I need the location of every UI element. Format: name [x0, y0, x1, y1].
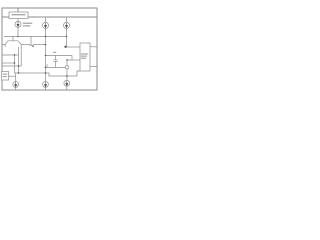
- junction node H: [66, 75, 67, 76]
- label text regulator box: [12, 14, 26, 15]
- bottom node wire N2: [15, 73, 78, 76]
- base lead Q2 to Q3: [21, 44, 30, 46]
- transistor Q4 hook: [46, 64, 48, 67]
- junction node L: [18, 65, 19, 66]
- arrow CS6: [66, 81, 68, 86]
- wire Q5 down: [66, 69, 68, 81]
- junction node F: [66, 59, 67, 60]
- input pair Q1/Q2 emitter hat: [5, 36, 21, 44]
- wire box to CS4: [9, 75, 16, 77]
- wire CS3 down: [66, 28, 68, 36]
- input wire: [2, 62, 15, 64]
- output wire OUT1: [90, 46, 97, 48]
- frame border: [2, 8, 97, 90]
- label C1: [53, 52, 56, 53]
- emitter arrow Q3: [31, 46, 34, 48]
- wire stub CS2: [45, 17, 47, 22]
- wire Q2 leg: [20, 45, 22, 67]
- wire corner step: [71, 55, 73, 60]
- wire CS4 to rail: [15, 87, 17, 90]
- wire to Q5: [46, 66, 66, 68]
- arrow CS3: [65, 23, 67, 28]
- arrow Q6 emitter: [64, 45, 67, 48]
- center column wire: [45, 36, 47, 81]
- wire to CS4: [15, 73, 17, 82]
- wire vertical: [18, 47, 20, 73]
- arrow CS2: [44, 23, 46, 28]
- VCC rail: [2, 16, 97, 18]
- junction node C: [45, 44, 46, 45]
- current source CS1: [15, 21, 21, 27]
- arrow CS4: [15, 82, 17, 87]
- driver column wire: [66, 36, 68, 47]
- node wire N3: [46, 54, 73, 56]
- capacitor C1: [54, 60, 58, 62]
- capacitor C1 lead: [55, 61, 57, 67]
- label reference current: [23, 23, 33, 24]
- wire stub CS3: [66, 17, 68, 22]
- Q5 collector lead: [66, 60, 68, 66]
- transistor Q3: [29, 36, 33, 45]
- wire CS1 down: [17, 27, 19, 36]
- junction node B: [45, 36, 46, 37]
- current source CS5: [43, 82, 49, 88]
- wire step up: [77, 71, 80, 76]
- junction node E: [45, 72, 46, 73]
- output wire OUT2: [90, 66, 97, 68]
- capacitor C1 lead: [55, 55, 57, 59]
- current source CS4: [13, 82, 19, 88]
- wire into output box: [68, 59, 81, 61]
- wire box to CS1: [17, 19, 19, 22]
- junction node K: [18, 72, 19, 73]
- current source CS6: [64, 80, 70, 86]
- wire vertical: [14, 55, 16, 73]
- junction node A: [17, 36, 18, 37]
- junction node J: [14, 62, 15, 63]
- junction node G: [45, 67, 46, 68]
- label output box: [81, 53, 88, 54]
- current source CS3: [63, 22, 69, 28]
- junction node D: [45, 55, 46, 56]
- current source CS2: [42, 22, 48, 28]
- wire CS6 to rail: [66, 86, 68, 90]
- input wire IN-: [2, 54, 19, 56]
- wire CS5 to rail: [45, 87, 47, 90]
- label bias box: [3, 74, 8, 75]
- wire to output box: [67, 46, 81, 48]
- junction node I: [14, 54, 15, 55]
- input wire: [2, 65, 21, 67]
- node wire N1: [4, 35, 67, 37]
- wire Q3 to center column: [33, 44, 46, 46]
- output stage box U3: [80, 43, 90, 71]
- arrow CS1: [17, 22, 19, 27]
- wire CS2 down: [45, 28, 47, 36]
- voltage regulator box U1: [9, 12, 28, 19]
- bias box U2: [2, 72, 9, 81]
- junction node M: [66, 36, 67, 37]
- base lead Q1 to border: [2, 45, 5, 48]
- arrow CS5: [44, 82, 46, 87]
- wire stub to regulator box: [17, 8, 19, 12]
- transistor Q5 circle: [65, 66, 68, 69]
